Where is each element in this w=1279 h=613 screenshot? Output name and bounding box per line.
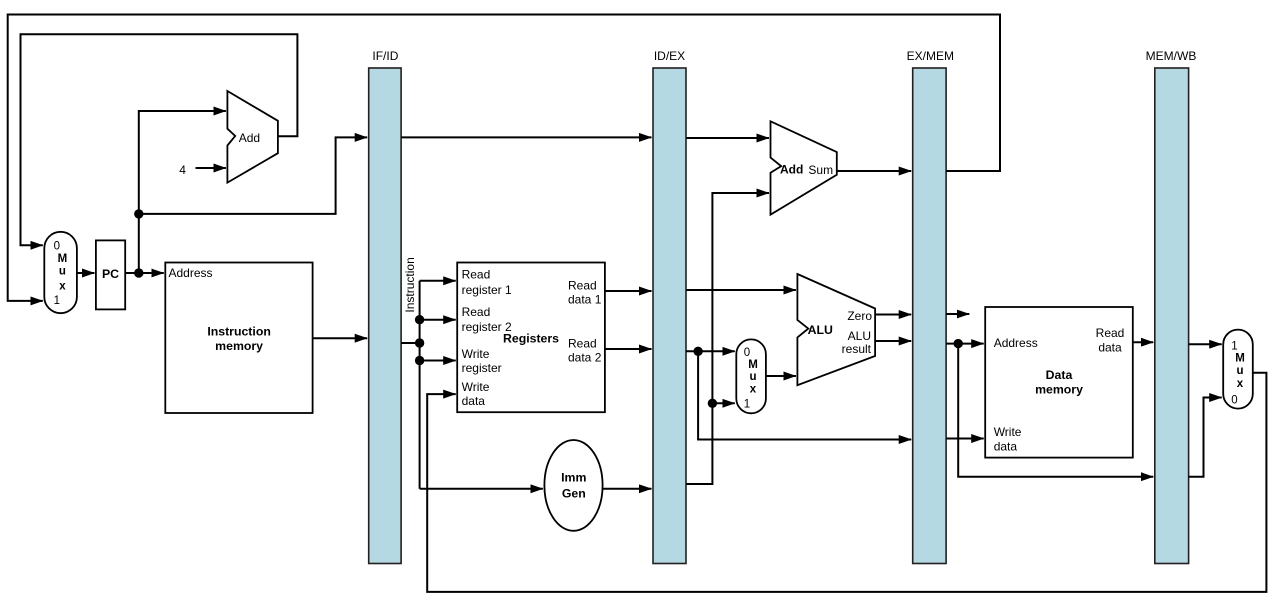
instruction memory box (165, 263, 312, 414)
Imm Gen ellipse (544, 440, 602, 531)
registers box (457, 263, 605, 413)
svg-text:4: 4 (179, 163, 186, 177)
wire constant 4 to Add (196, 167, 226, 169)
svg-text:IF/ID: IF/ID (372, 49, 398, 63)
pipeline register ID/EX (653, 49, 686, 564)
svg-text:data: data (1098, 340, 1122, 354)
wire Read data 1 to ID/EX (605, 290, 652, 292)
svg-text:PC: PC (102, 267, 119, 281)
svg-text:M: M (748, 359, 758, 371)
mux M1 (PC source mux) (44, 232, 77, 313)
svg-text:Write: Write (462, 347, 490, 361)
svg-text:memory: memory (215, 339, 263, 353)
mux M3 (write-back mux) (1223, 330, 1253, 409)
wire Imm Gen to ID/EX (603, 488, 652, 490)
svg-text:Zero: Zero (847, 309, 872, 323)
svg-text:ALU: ALU (808, 323, 833, 337)
wire PC+4 IF/ID to ID/EX (401, 136, 651, 138)
svg-text:Address: Address (994, 336, 1038, 350)
svg-text:x: x (1237, 378, 1244, 390)
svg-text:register 1: register 1 (462, 283, 512, 297)
data memory box (985, 307, 1133, 458)
wire EX/MEM to data memory Write data (946, 438, 984, 440)
svg-text:Instruction: Instruction (207, 325, 271, 339)
svg-text:1: 1 (744, 398, 750, 410)
wire read data 2 down to EX/MEM (698, 351, 911, 439)
junction dot write register (415, 356, 424, 365)
wire immediate to mux M2 input 1 (712, 402, 734, 404)
svg-text:memory: memory (1035, 383, 1083, 397)
wire ALU Zero to EX/MEM (875, 314, 911, 316)
wire ID/EX to ALU input (686, 289, 796, 291)
wire ALU result down to MEM/WB (958, 344, 1153, 477)
wire branch target loop EX/MEM to mux M1 input 1 (8, 15, 1000, 301)
svg-text:EX/MEM: EX/MEM (907, 49, 954, 63)
wire Read data 2 to ID/EX (605, 348, 652, 350)
svg-text:result: result (842, 342, 872, 356)
wire data memory Read data to MEM/WB (1133, 341, 1154, 343)
svg-text:Instruction: Instruction (403, 257, 417, 312)
svg-text:0: 0 (744, 347, 750, 359)
svg-text:0: 0 (54, 241, 60, 253)
svg-text:Write: Write (462, 380, 490, 394)
svg-text:Read: Read (1096, 326, 1125, 340)
wire IF/ID instruction out stub (401, 342, 420, 344)
svg-text:M: M (58, 253, 68, 265)
wire to Read register 2 (420, 319, 456, 321)
wire Add output loop to mux M1 input 0 (21, 34, 298, 245)
svg-text:Write: Write (994, 425, 1022, 439)
svg-text:Add: Add (239, 131, 260, 145)
svg-text:Read: Read (568, 279, 597, 293)
wire instruction vertical (419, 281, 421, 489)
svg-text:1: 1 (1231, 340, 1237, 352)
junction dot on PC value line (134, 209, 143, 218)
svg-text:MEM/WB: MEM/WB (1146, 49, 1197, 63)
svg-text:u: u (59, 266, 66, 278)
wire ID/EX to Add Sum top input (686, 137, 769, 139)
svg-text:Read: Read (568, 337, 597, 351)
svg-text:u: u (749, 371, 756, 383)
pipeline register MEM/WB (1146, 49, 1197, 564)
adder Add (PC+4) (227, 91, 278, 183)
wire to Write register (420, 360, 456, 362)
svg-text:Address: Address (169, 266, 213, 280)
junction dot read data 2 (693, 347, 702, 356)
wire instruction to Imm Gen (420, 488, 543, 490)
wire MEM/WB ALU result to mux M3 input 0 (1189, 398, 1222, 477)
wire PC value to IF/ID (139, 137, 367, 214)
svg-text:M: M (1235, 353, 1245, 365)
svg-text:Read: Read (462, 268, 491, 282)
wire EX/MEM Zero out (dangling) (946, 313, 969, 315)
mux M2 (ALU operand mux) (736, 339, 766, 413)
wire vertical from PC output up to Add (139, 111, 226, 273)
svg-text:Sum: Sum (808, 163, 833, 177)
svg-text:ALU: ALU (848, 329, 871, 343)
pipeline register EX/MEM (907, 49, 954, 564)
junction dot instruction stub (415, 338, 424, 347)
svg-text:data: data (462, 394, 486, 408)
svg-text:x: x (750, 384, 757, 396)
svg-text:x: x (59, 281, 66, 293)
svg-text:u: u (1236, 365, 1243, 377)
svg-text:Read: Read (462, 305, 491, 319)
junction dot on PC output (134, 268, 143, 277)
wire MEM/WB read data to mux M3 input 1 (1189, 343, 1222, 345)
wire mux M1 to PC (77, 272, 95, 274)
register PC (96, 240, 125, 309)
svg-text:ID/EX: ID/EX (654, 49, 685, 63)
svg-text:Gen: Gen (562, 486, 586, 500)
adder Add Sum (branch target) (771, 121, 837, 214)
wire mux M2 to ALU input (766, 375, 796, 377)
svg-text:Registers: Registers (503, 331, 559, 345)
svg-text:Add: Add (780, 163, 803, 177)
junction dot on immediate vertical (708, 399, 717, 408)
wire to Read register 1 (420, 280, 456, 282)
svg-text:Imm: Imm (561, 471, 586, 485)
pipeline register IF/ID (369, 49, 401, 564)
svg-text:Data: Data (1046, 368, 1073, 382)
wire ALU result to EX/MEM (875, 340, 911, 342)
svg-text:register: register (462, 361, 502, 375)
wire instruction memory to IF/ID (313, 337, 368, 339)
junction dot ALU result (954, 339, 963, 348)
svg-text:0: 0 (1231, 395, 1237, 407)
wire write-back to Write data (427, 373, 1266, 592)
svg-text:data: data (994, 440, 1018, 454)
svg-text:data 1: data 1 (568, 293, 602, 307)
wire PC to instruction memory Address (125, 272, 164, 274)
svg-text:data 2: data 2 (568, 351, 602, 365)
wire EX/MEM ALU result to data memory Address (946, 343, 984, 345)
wire ID/EX to mux M2 input 0 (686, 350, 735, 352)
svg-text:1: 1 (54, 295, 60, 307)
wire immediate vertical to Add Sum bottom input (686, 193, 769, 484)
wire Add Sum output to EX/MEM (837, 170, 911, 172)
junction dot read register 2 (415, 315, 424, 324)
ALU (797, 274, 875, 385)
